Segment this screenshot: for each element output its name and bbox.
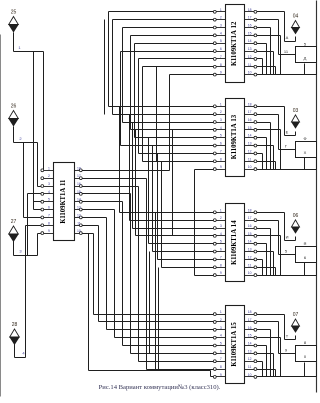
svg-text:1: 1 [220, 208, 222, 212]
svg-text:8: 8 [48, 221, 50, 225]
svg-text:15: 15 [248, 31, 252, 35]
svg-text:17: 17 [248, 318, 252, 322]
svg-text:6: 6 [220, 142, 222, 146]
svg-text:5: 5 [220, 134, 222, 138]
svg-text:03: 03 [293, 108, 299, 114]
connector X04 output [292, 14, 300, 34]
svg-text:3: 3 [220, 224, 222, 228]
svg-text:1: 1 [220, 8, 222, 12]
svg-text:10: 10 [248, 165, 252, 169]
wire И1 output pin 11 to И5 pin 2 via column x98.4 [83, 226, 214, 322]
wire И2 pin 17 to load box left section 1 [257, 20, 296, 55]
svg-text:К1109КТ1А 13: К1109КТ1А 13 [231, 114, 238, 159]
svg-text:14: 14 [248, 39, 252, 43]
wire И1 output pin 16 to И5 pin 7 via column x138.4 [83, 187, 214, 362]
wire И5 pin 13 drop section 4 [257, 354, 274, 377]
connector X28 input [10, 322, 20, 344]
wire И2 pin 12 drop section 1 [257, 59, 263, 75]
svg-text:10: 10 [248, 373, 252, 377]
wire И4 pin 14 drop section 3 [257, 244, 267, 276]
wire И1 output pin 12 to И5 pin 3 via column x106.9 [83, 218, 214, 330]
IC U3 К1109КТ1А И3 [213, 99, 256, 177]
svg-text:И: И [286, 234, 289, 239]
svg-text:15: 15 [77, 190, 81, 194]
wire И5 pin 17 to load box left section 4 [257, 322, 296, 354]
svg-text:12: 12 [77, 213, 81, 217]
wire net 3 connector 27 to И1 pins 4 9 [14, 194, 41, 256]
svg-text:15: 15 [248, 334, 252, 338]
wire bottom return section 1 [257, 64, 317, 75]
svg-text:4: 4 [220, 232, 222, 236]
wire И3 pin 15 drop section 2 [257, 130, 281, 170]
wire net 1 connector 25 to И1 pins 1 5 6 [14, 33, 44, 210]
wire И1 output pin 10 to И5 pin 1 via column x93.5 [83, 234, 214, 315]
svg-text:17: 17 [248, 110, 252, 114]
svg-text:5: 5 [220, 240, 222, 244]
svg-text:4: 4 [22, 350, 25, 355]
bus wire И2 pin 2 to И3 pin 2 via column x112.0 [113, 20, 214, 115]
svg-text:4: 4 [48, 190, 50, 194]
svg-text:1: 1 [48, 166, 50, 170]
svg-text:9: 9 [220, 271, 222, 275]
bus wire И3 pin 3 row to И4 pin 3 via column x132.6 [133, 123, 214, 229]
bus wire И3 pin 4 row to И4 pin 4 via column x135.9 [136, 130, 214, 236]
load box section 2 [296, 136, 317, 158]
svg-text:04: 04 [293, 14, 299, 20]
svg-text:13: 13 [248, 248, 252, 252]
svg-text:9: 9 [285, 348, 288, 353]
svg-text:6: 6 [48, 206, 50, 210]
svg-text:5: 5 [48, 198, 50, 202]
svg-text:5: 5 [285, 248, 288, 253]
wire И5 pin 18 to connector 07 [257, 315, 296, 340]
bus wire И2 pin 5 to И3 pin 5 via column x135.0 [135, 44, 214, 138]
svg-text:16: 16 [248, 326, 252, 330]
svg-text:7: 7 [220, 55, 222, 59]
svg-text:2: 2 [48, 174, 50, 178]
svg-text:Д: Д [304, 56, 307, 61]
svg-text:17: 17 [77, 174, 81, 178]
bus wire И2 pin 8 to И3 pin 8 via column x143.0 [143, 67, 214, 162]
svg-text:16: 16 [248, 24, 252, 28]
svg-text:15: 15 [248, 232, 252, 236]
svg-text:25: 25 [11, 10, 17, 16]
load box section 4 [296, 340, 317, 362]
svg-text:13: 13 [77, 206, 81, 210]
wire И3 pin 9 to И4 pin 9 via column x195 [195, 170, 214, 276]
bus wire И2 pin 7 to И3 pin 7 via column x139.0 [139, 59, 214, 154]
wire И3 pin 11 drop section 2 [257, 162, 276, 170]
wire И5 pin 16 drop section 4 [257, 330, 271, 377]
connector X03 output [292, 108, 300, 128]
svg-text:13: 13 [248, 349, 252, 353]
svg-text:1: 1 [18, 45, 21, 50]
wire И1 output pin 15 to И5 pin 6 via column x130.9 [83, 194, 214, 354]
svg-text:14: 14 [248, 342, 252, 346]
svg-text:11: 11 [248, 263, 252, 267]
svg-text:10: 10 [248, 271, 252, 275]
svg-text:5: 5 [220, 39, 222, 43]
connector X27 input [9, 219, 19, 241]
svg-text:16: 16 [77, 182, 81, 186]
wire И4 pin 17 to load box left section 3 [257, 221, 296, 255]
wire И3 pin 12 drop section 2 [257, 154, 263, 170]
svg-text:Ф: Ф [303, 136, 306, 141]
svg-text:27: 27 [11, 219, 17, 225]
border left scan line [0, 35, 2, 397]
svg-text:06: 06 [293, 213, 299, 219]
IC U5 К1109КТ1А И5 [213, 306, 256, 384]
svg-text:1: 1 [220, 102, 222, 106]
IC U1 К1109КТ1А И1 [41, 163, 82, 241]
svg-text:9: 9 [220, 71, 222, 75]
wire И3 pin 14 drop section 2 [257, 138, 267, 170]
svg-text:18: 18 [77, 166, 81, 170]
svg-text:9: 9 [220, 165, 222, 169]
svg-text:4: 4 [220, 126, 222, 130]
wire И2 pin 18 to connector 04 [257, 12, 296, 42]
svg-text:07: 07 [293, 312, 299, 318]
wire И1 output pin 13 to И5 pin 4 via column x114.9 [83, 210, 214, 338]
svg-text:12: 12 [248, 55, 252, 59]
svg-text:3: 3 [48, 182, 50, 186]
wire bottom return section 2 [257, 158, 317, 170]
wire И5 pin 12 drop section 4 [257, 362, 263, 377]
svg-text:14: 14 [248, 134, 252, 138]
wire И3 pin 17 to load box left section 2 [257, 115, 296, 150]
svg-text:2: 2 [220, 216, 222, 220]
svg-text:Е: Е [286, 129, 289, 134]
svg-text:17: 17 [248, 216, 252, 220]
bus wire И2 pin 6 to И3 pin 6 via column x120.0 [121, 52, 214, 146]
svg-text:18: 18 [248, 208, 252, 212]
wire И4 pin 13 drop section 3 [257, 252, 274, 276]
svg-text:16: 16 [248, 224, 252, 228]
svg-text:8: 8 [304, 340, 307, 345]
wire И5 pin 11 drop section 4 [257, 370, 276, 377]
load box section 1 [296, 42, 317, 63]
bus filler column x104 И2 pin2 row to И3 pin2 row [104, 20, 106, 115]
connector X06 output [292, 213, 300, 233]
svg-text:2: 2 [220, 16, 222, 20]
svg-text:К1109КТ1А 12: К1109КТ1А 12 [231, 21, 238, 66]
svg-text:2: 2 [220, 318, 222, 322]
bus wire И3 pin 5 row to И4 pin 5 via column x148.9 [149, 138, 214, 244]
bus filler column x158 И4 pin8 row to И5 pin8 row [158, 268, 160, 370]
wire bottom return section 4 [257, 363, 317, 377]
right power rail [316, 1, 318, 393]
connector X26 input [9, 104, 19, 126]
svg-text:8: 8 [220, 263, 222, 267]
IC U4 К1109КТ1А И4 [213, 204, 256, 282]
svg-text:18: 18 [248, 310, 252, 314]
wire И2 pin 11 drop section 1 [257, 67, 276, 75]
svg-text:11: 11 [284, 49, 289, 54]
svg-text:К1109КТ1А 11: К1109КТ1А 11 [60, 179, 67, 224]
svg-text:12: 12 [248, 149, 252, 153]
svg-text:9: 9 [220, 373, 222, 377]
bus wire И3 pin 2 row to И4 pin 2 via column x129.3 [130, 115, 214, 221]
wire И1 output pin 14 to И5 pin 5 via column x122.9 [83, 202, 214, 346]
svg-text:1: 1 [220, 310, 222, 314]
wire bottom return section 3 [257, 263, 317, 276]
wire И4 pin 12 drop section 3 [257, 260, 263, 276]
svg-text:Х: Х [304, 150, 307, 155]
svg-text:12: 12 [248, 255, 252, 259]
svg-text:7: 7 [220, 357, 222, 361]
svg-text:6: 6 [220, 248, 222, 252]
svg-text:12: 12 [248, 357, 252, 361]
connector X25 input [9, 10, 19, 32]
wire И2 pin 13 drop section 1 [257, 52, 274, 75]
svg-text:2: 2 [220, 110, 222, 114]
svg-text:8: 8 [220, 365, 222, 369]
wire И2 pin 14 drop section 1 [257, 44, 267, 75]
wire И2 pin 16 drop section 1 [257, 28, 271, 75]
wire bottom feeder to И5 pin 9 [89, 234, 214, 377]
wire И3 pin 16 drop section 2 [257, 123, 271, 170]
bus wire И3 pin 7 row to И4 pin 7 via column x157.9 [158, 154, 214, 260]
svg-text:4: 4 [220, 334, 222, 338]
svg-text:13: 13 [248, 47, 252, 51]
svg-text:11: 11 [248, 157, 252, 161]
wire И4 pin 11 drop section 3 [257, 268, 276, 276]
bus wire И2 pin 1 to И3 pin 1 via column x108.0 [109, 12, 214, 107]
svg-text:14: 14 [77, 198, 81, 202]
svg-text:10: 10 [248, 71, 252, 75]
wire И4 pin 18 to connector 06 [257, 213, 296, 241]
svg-text:7: 7 [220, 149, 222, 153]
wire И3 pin 18 to connector 03 [257, 107, 296, 136]
svg-text:7: 7 [48, 213, 50, 217]
wire И1 output pin 18 to И2 pin 9 [83, 75, 214, 171]
svg-text:18: 18 [248, 8, 252, 12]
svg-text:10: 10 [77, 229, 81, 233]
svg-text:Г: Г [285, 143, 288, 148]
svg-text:2: 2 [19, 136, 22, 141]
connector X07 output [292, 312, 300, 332]
svg-text:8: 8 [220, 157, 222, 161]
wire И1 output pin 17 to И5 pin 8 via column x146.9 [83, 179, 214, 370]
svg-text:Рис.14 Вариант коммутации№3 (к: Рис.14 Вариант коммутации№3 (класс310). [99, 384, 221, 391]
svg-text:3: 3 [220, 24, 222, 28]
svg-text:28: 28 [12, 322, 18, 328]
svg-text:4: 4 [220, 31, 222, 35]
svg-text:3: 3 [220, 326, 222, 330]
bus wire И2 pin 3 to И3 pin 3 via column x122.0 [123, 28, 214, 123]
svg-text:5: 5 [220, 342, 222, 346]
wire И4 pin 16 drop section 3 [257, 229, 271, 276]
svg-text:5: 5 [304, 42, 307, 47]
svg-text:6: 6 [220, 47, 222, 51]
svg-text:К1109КТ1А 14: К1109КТ1А 14 [231, 220, 238, 265]
load box section 3 [296, 241, 317, 263]
svg-text:14: 14 [248, 240, 252, 244]
bus filler column x157 И2 pin8 row to И3 pin8 row [156, 67, 158, 162]
svg-text:16: 16 [248, 118, 252, 122]
wire И4 pin 15 drop section 3 [257, 236, 281, 276]
svg-text:15: 15 [248, 126, 252, 130]
svg-text:18: 18 [248, 102, 252, 106]
svg-text:3: 3 [220, 118, 222, 122]
bus filler column x149 И4 pin6 row to И5 pin6 row [149, 252, 151, 354]
bus filler column x172 И3 pin4 row to И4 pin4 row [172, 130, 174, 236]
wire И2 pin 15 drop section 1 [257, 36, 281, 75]
svg-text:11: 11 [248, 63, 252, 67]
svg-text:17: 17 [248, 16, 252, 20]
svg-text:Я: Я [304, 241, 307, 246]
svg-text:9: 9 [48, 229, 50, 233]
wire И5 pin 14 drop section 4 [257, 346, 267, 377]
svg-text:8: 8 [220, 63, 222, 67]
bus wire И3 pin 1 row to И4 pin 1 via column x119.6 [120, 107, 214, 213]
wire net 4 connector 28 to И1 pin 8 [15, 226, 41, 358]
wire И5 pin 15 drop section 4 [257, 338, 281, 377]
svg-text:7: 7 [220, 255, 222, 259]
svg-text:6: 6 [220, 349, 222, 353]
svg-text:11: 11 [248, 365, 252, 369]
IC U2 К1109КТ1А И2 [213, 5, 256, 83]
svg-text:11: 11 [77, 221, 81, 225]
svg-text:3: 3 [19, 249, 22, 254]
svg-text:13: 13 [248, 142, 252, 146]
svg-text:К1109КТ1А 15: К1109КТ1А 15 [231, 322, 238, 367]
bus wire И3 pin 8 row to И4 pin 8 via column x161.1 [162, 162, 214, 268]
svg-text:Т: Т [286, 334, 289, 339]
svg-text:26: 26 [11, 104, 17, 110]
bus filler column x155 И4 pin1 row to bottom feeder [155, 213, 157, 371]
bus wire И2 pin 4 to И3 pin 4 via column x131.0 [131, 36, 214, 130]
wire И3 pin 13 drop section 2 [257, 146, 274, 170]
svg-text:А: А [286, 35, 289, 40]
wire net 2 connector 26 to И1 pins 2 3 7 [14, 127, 41, 218]
bus wire И3 pin 6 row to И4 pin 6 via column x153.0 [153, 146, 214, 252]
